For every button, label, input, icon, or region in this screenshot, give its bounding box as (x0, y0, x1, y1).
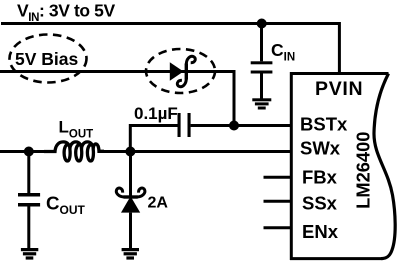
ground COUT (21, 248, 38, 260)
capacitor CIN (251, 61, 273, 73)
svg-text:SWx: SWx (300, 138, 341, 159)
svg-text:LOUT: LOUT (59, 118, 94, 141)
IC U1 LM26400 block outline (290, 72, 389, 260)
pin stub ENx (264, 226, 292, 229)
svg-text:PVIN: PVIN (315, 78, 363, 100)
diode D1 schottky (horizontal) (170, 56, 195, 86)
wire SWx rail (0, 150, 291, 153)
svg-text:BSTx: BSTx (300, 114, 348, 135)
wire BSTx (130, 124, 291, 152)
wire 5V bias rail (0, 70, 234, 126)
wire VIN rail (1, 22, 339, 74)
pin stub SSx (264, 200, 292, 203)
wire COUT lead top (27, 152, 30, 194)
svg-text:CIN: CIN (271, 40, 295, 64)
ellipse around diode (dashed) (146, 49, 215, 93)
node BSTx junction (229, 121, 239, 131)
svg-text:LM26400: LM26400 (352, 132, 373, 209)
ground D2 (122, 248, 139, 260)
node SWx-COUT junction (24, 147, 34, 157)
pin stub FBx (264, 176, 292, 179)
svg-text:SSx: SSx (302, 193, 338, 214)
svg-text:VIN: 3V to 5V: VIN: 3V to 5V (17, 1, 115, 25)
wire COUT lead bottom (27, 207, 30, 249)
diode D2 schottky 2A (vertical) (116, 152, 145, 249)
svg-text:0.1µF: 0.1µF (134, 104, 178, 123)
svg-text:2A: 2A (148, 195, 169, 212)
IC U1 right torn edge (374, 74, 395, 259)
node VIN junction (257, 19, 267, 29)
ellipse 5V Bias (dashed) (10, 35, 87, 83)
svg-text:5V Bias: 5V Bias (15, 49, 78, 69)
node SWx-D2 junction (125, 147, 135, 157)
svg-text:ENx: ENx (302, 221, 339, 242)
svg-text:FBx: FBx (302, 167, 338, 188)
wire CIN lead bottom (260, 74, 263, 99)
capacitor C1 0.1uF (178, 113, 191, 137)
wire CIN lead top (260, 24, 263, 62)
ground CIN (252, 98, 271, 109)
svg-text:COUT: COUT (46, 192, 86, 217)
inductor LOUT (44, 142, 104, 161)
capacitor COUT (18, 193, 40, 207)
